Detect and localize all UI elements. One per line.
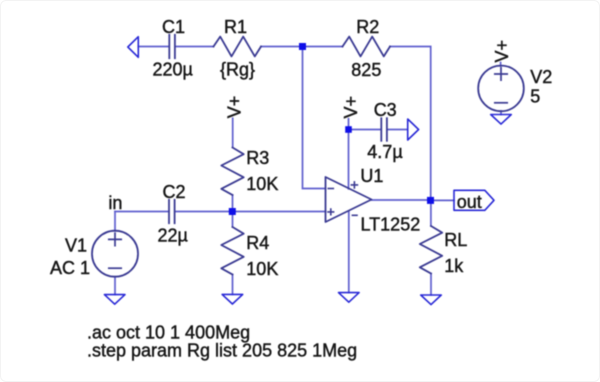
wire op-amp V- pin to ground [348,211,350,292]
wire node in to C2 [115,211,169,213]
wire node B to R2 [303,46,343,48]
wire V2 to ground [500,111,502,115]
wire top-left flag to C1 [138,46,169,48]
resistor R2 [343,37,391,57]
op-amp inverting input mark [328,188,333,190]
resistor R1 [214,37,262,57]
svg-text:C1: C1 [162,17,185,37]
resistor R4 [221,227,243,275]
svg-text:{Rg}: {Rg} [220,60,255,80]
wire node B down and right to op-amp inverting input [303,47,326,189]
op-amp non-inverting input mark [328,209,334,215]
wire V+ flag to V2 [500,63,502,67]
svg-text:220µ: 220µ [153,60,193,80]
junction node C (V+ at op-amp) [345,126,352,133]
wire C3 to right flag [387,129,408,131]
svg-text:C3: C3 [374,100,397,120]
svg-text:V+: V+ [341,96,361,119]
wire R4 to ground [232,275,234,295]
wire node in down to V1 [114,212,116,232]
junction node B [299,43,306,50]
wire C2 to node A [175,211,232,213]
svg-text:5: 5 [530,87,540,107]
wire op-amp output to node out [372,199,431,201]
svg-text:U1: U1 [360,166,383,186]
svg-text:4.7µ: 4.7µ [367,142,402,162]
wire RL to ground [430,274,432,296]
V2 plus mark [495,68,507,80]
wire node out down to RL [430,200,432,226]
op-amp V+ power pin mark [351,182,357,188]
wire node A to R4 [232,212,234,228]
capacitor C2 [169,200,175,223]
svg-text:R4: R4 [246,233,269,253]
svg-text:.step param Rg list 205 825 1M: .step param Rg list 205 825 1Meg [87,341,357,361]
port out pentagon [454,190,494,210]
svg-text:LT1252: LT1252 [361,214,421,234]
right dangling flag triangle after C3 [408,119,419,140]
V1 minus mark [109,267,121,269]
svg-text:R1: R1 [224,17,247,37]
junction node A [229,208,236,215]
svg-text:22µ: 22µ [158,225,188,245]
capacitor C1 [169,35,175,58]
op-amp V- power pin mark [352,214,357,216]
svg-text:out: out [457,192,482,212]
wire R1 to node B [261,46,303,48]
svg-text:10K: 10K [246,174,278,194]
wire R3 to node A [232,195,234,212]
wire V1 to ground [114,277,116,295]
wire C1 to R1 [175,46,213,48]
svg-text:.ac oct 10 1 400Meg: .ac oct 10 1 400Meg [87,322,250,342]
svg-text:R3: R3 [246,148,269,168]
V1 plus mark [109,233,121,245]
svg-text:V1: V1 [65,235,87,255]
voltage source V2 circle [478,66,524,112]
voltage source V1 circle [92,231,138,277]
svg-text:10K: 10K [246,259,278,279]
svg-text:V2: V2 [530,67,552,87]
resistor RL [420,226,442,274]
svg-text:C2: C2 [163,182,186,202]
op-amp U1 triangle [326,177,372,222]
left dangling flag triangle [128,37,139,58]
ground under op-amp [339,293,360,303]
ground under V1 [104,295,125,305]
V2 minus mark [495,102,507,104]
wire node out to port [431,199,455,201]
svg-text:AC 1: AC 1 [50,258,90,278]
ground under RL [421,295,442,305]
junction node out [427,197,434,204]
svg-text:V+: V+ [492,40,512,63]
ground under V2 [491,115,512,125]
svg-text:in: in [108,193,122,213]
resistor R3 [221,148,243,196]
svg-text:R2: R2 [356,17,379,37]
wire node A to op-amp non-inverting input [232,211,326,213]
capacitor C3 [381,118,387,141]
ground under R4 [222,294,243,304]
svg-text:825: 825 [351,60,381,80]
wire R2 right, down to output node [390,47,431,198]
svg-text:V+: V+ [225,96,245,119]
wire V+ flag through node C to op-amp V+ pin [348,119,350,189]
svg-text:1k: 1k [444,256,464,276]
wire V+ flag to R3 [232,118,234,147]
wire node C to C3 [349,129,382,131]
svg-text:RL: RL [444,230,467,250]
